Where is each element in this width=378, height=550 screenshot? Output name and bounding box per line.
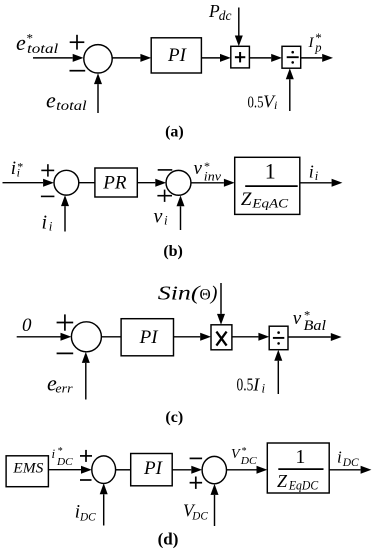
minus sign S2b (158, 169, 173, 171)
plus sign S1d (80, 450, 92, 462)
node e_err label (47, 370, 74, 395)
transfer block 1/Z_EqAC (235, 157, 300, 214)
summer S1b circle (54, 170, 79, 195)
svg-text:i: i (42, 212, 48, 234)
node v_i label (154, 206, 169, 228)
svg-text:0.5: 0.5 (237, 374, 254, 394)
wire summer S2d to Z block (227, 469, 257, 471)
svg-text:i: i (164, 213, 168, 228)
PI block (d) (131, 454, 173, 486)
wire Sin down into multiplier (220, 283, 222, 314)
wire summer S1a to PI block (112, 57, 140, 59)
svg-text:EqDC: EqDC (288, 478, 318, 493)
node i_DC output label (337, 448, 359, 469)
node P_dc label (208, 1, 231, 23)
svg-text:I: I (252, 374, 260, 394)
wire divider to output Ip* (301, 57, 323, 59)
node i*_i input label (11, 158, 23, 179)
wire summer S2b to Z block (191, 182, 224, 184)
wire 0.5Vi up into divider (289, 79, 291, 111)
wire PR to summer S2b (137, 182, 155, 184)
svg-text:0.5: 0.5 (248, 93, 264, 112)
wire input to summer S1a (33, 57, 73, 59)
node V*_DC label (231, 446, 257, 467)
plus sign S1c (57, 314, 74, 330)
svg-text:inv: inv (204, 170, 222, 184)
wire PI to adder box (201, 57, 220, 59)
wire v_i up into summer S2b (180, 206, 182, 230)
svg-text:i: i (309, 162, 314, 182)
svg-text:DC: DC (240, 455, 258, 467)
node V_DC label (183, 501, 208, 523)
wire divider to output arrow (288, 336, 331, 338)
svg-text:V: V (231, 447, 241, 462)
svg-text:i: i (274, 98, 277, 112)
node e_total feedback label (46, 87, 87, 113)
adder box (a) (231, 46, 250, 68)
svg-text:1: 1 (295, 446, 305, 468)
PI block (c) (121, 319, 173, 356)
svg-text:p: p (314, 41, 321, 55)
svg-text:I: I (308, 35, 315, 51)
summer S1c circle (71, 322, 101, 352)
plus sign S1b (41, 164, 54, 176)
wire EMS to summer S1d (48, 469, 81, 471)
wire 0.5Ii up into divider (277, 361, 279, 394)
PI block (a) (151, 38, 201, 73)
node I*_p output label (308, 30, 322, 55)
wire Z block to output (300, 182, 332, 184)
summer S2d circle (202, 456, 226, 483)
plus sign S2b (157, 190, 172, 202)
plus sign at summer S1a (70, 35, 85, 50)
minus sign at summer S1a (70, 70, 86, 72)
plus sign S2d (190, 477, 203, 489)
wire V_DC up into summer S2d (214, 495, 216, 526)
wire i_i up into summer S1b (64, 206, 66, 231)
svg-text:Bal: Bal (304, 318, 327, 334)
node i_i feedback label (42, 212, 53, 234)
minus sign S1d (80, 479, 92, 481)
svg-text:i: i (315, 169, 319, 183)
wire summer S1c to PI block (101, 336, 121, 338)
node i_i output label (309, 162, 319, 183)
wire input to summer S1c (17, 336, 61, 338)
svg-text:PI: PI (143, 458, 164, 479)
PR block (95, 168, 137, 197)
wire P_dc down into adder (238, 8, 240, 36)
wire input to summer S1b (3, 182, 44, 184)
svg-text:0: 0 (22, 315, 32, 336)
divider box (c) (269, 326, 288, 350)
svg-text:PR: PR (102, 172, 127, 193)
node v*_inv label (194, 158, 222, 184)
wire PI to summer S2d (172, 469, 191, 471)
svg-text:v: v (194, 158, 203, 179)
svg-text:(a): (a) (165, 123, 184, 140)
svg-text:EqAC: EqAC (251, 196, 288, 211)
svg-text:1: 1 (265, 158, 276, 183)
minus sign S1c (57, 352, 74, 354)
svg-text:DC: DC (342, 457, 359, 469)
svg-text:e: e (46, 87, 56, 112)
svg-text:err: err (55, 380, 73, 395)
svg-text:i: i (11, 158, 16, 179)
svg-text:Z: Z (241, 189, 252, 210)
transfer block 1/Z_EqDC (267, 443, 329, 493)
minus sign S1b (41, 195, 55, 197)
svg-text:(b): (b) (163, 243, 183, 260)
node i_DC feedback label (75, 502, 96, 524)
wire i_DC up into summer S1d (103, 494, 105, 525)
svg-text:e: e (16, 30, 26, 55)
svg-text:i: i (17, 165, 20, 179)
wire Z block to output (329, 469, 360, 471)
wire e_err up into summer S1c (85, 363, 87, 400)
svg-text:i: i (49, 219, 53, 234)
node i*_DC label (52, 446, 74, 468)
svg-text:i: i (52, 446, 56, 461)
divider box (a) (282, 46, 301, 68)
node 0.5Ii label (237, 374, 266, 395)
wire PI to multiplier (174, 336, 201, 338)
svg-text:v: v (154, 206, 163, 228)
summer S1a circle (84, 45, 112, 73)
wire adder to divider (249, 57, 271, 59)
wire summer S1b to PR block (79, 182, 95, 184)
multiplier box X (211, 325, 232, 350)
svg-text:Sin(Θ): Sin(Θ) (158, 283, 218, 305)
svg-text:v: v (293, 308, 302, 329)
svg-text:(d): (d) (158, 530, 179, 549)
svg-text:i: i (262, 381, 266, 396)
node v*_Bal output label (293, 308, 326, 334)
svg-text:total: total (27, 41, 59, 56)
summer S1d circle (92, 456, 116, 484)
minus sign S2d (190, 457, 203, 459)
svg-text:i: i (337, 448, 342, 467)
summer S2b circle (166, 170, 191, 195)
wire multiplier to divider (c) (232, 336, 259, 338)
svg-text:PI: PI (167, 45, 188, 66)
svg-text:DC: DC (191, 511, 208, 523)
svg-text:total: total (56, 98, 87, 113)
wire summer S1d to PI block (116, 469, 131, 471)
wire e_total up into summer S1a (97, 84, 99, 113)
EMS block (6, 456, 48, 487)
svg-text:DC: DC (79, 511, 96, 523)
svg-text:Z: Z (277, 471, 288, 491)
svg-text:EMS: EMS (12, 460, 44, 476)
node 0.5Vi label (248, 92, 278, 112)
svg-text:(c): (c) (165, 409, 183, 426)
svg-text:dc: dc (219, 8, 232, 23)
node e*_total input label (16, 30, 59, 56)
svg-text:DC: DC (56, 456, 73, 468)
svg-text:PI: PI (139, 327, 160, 348)
